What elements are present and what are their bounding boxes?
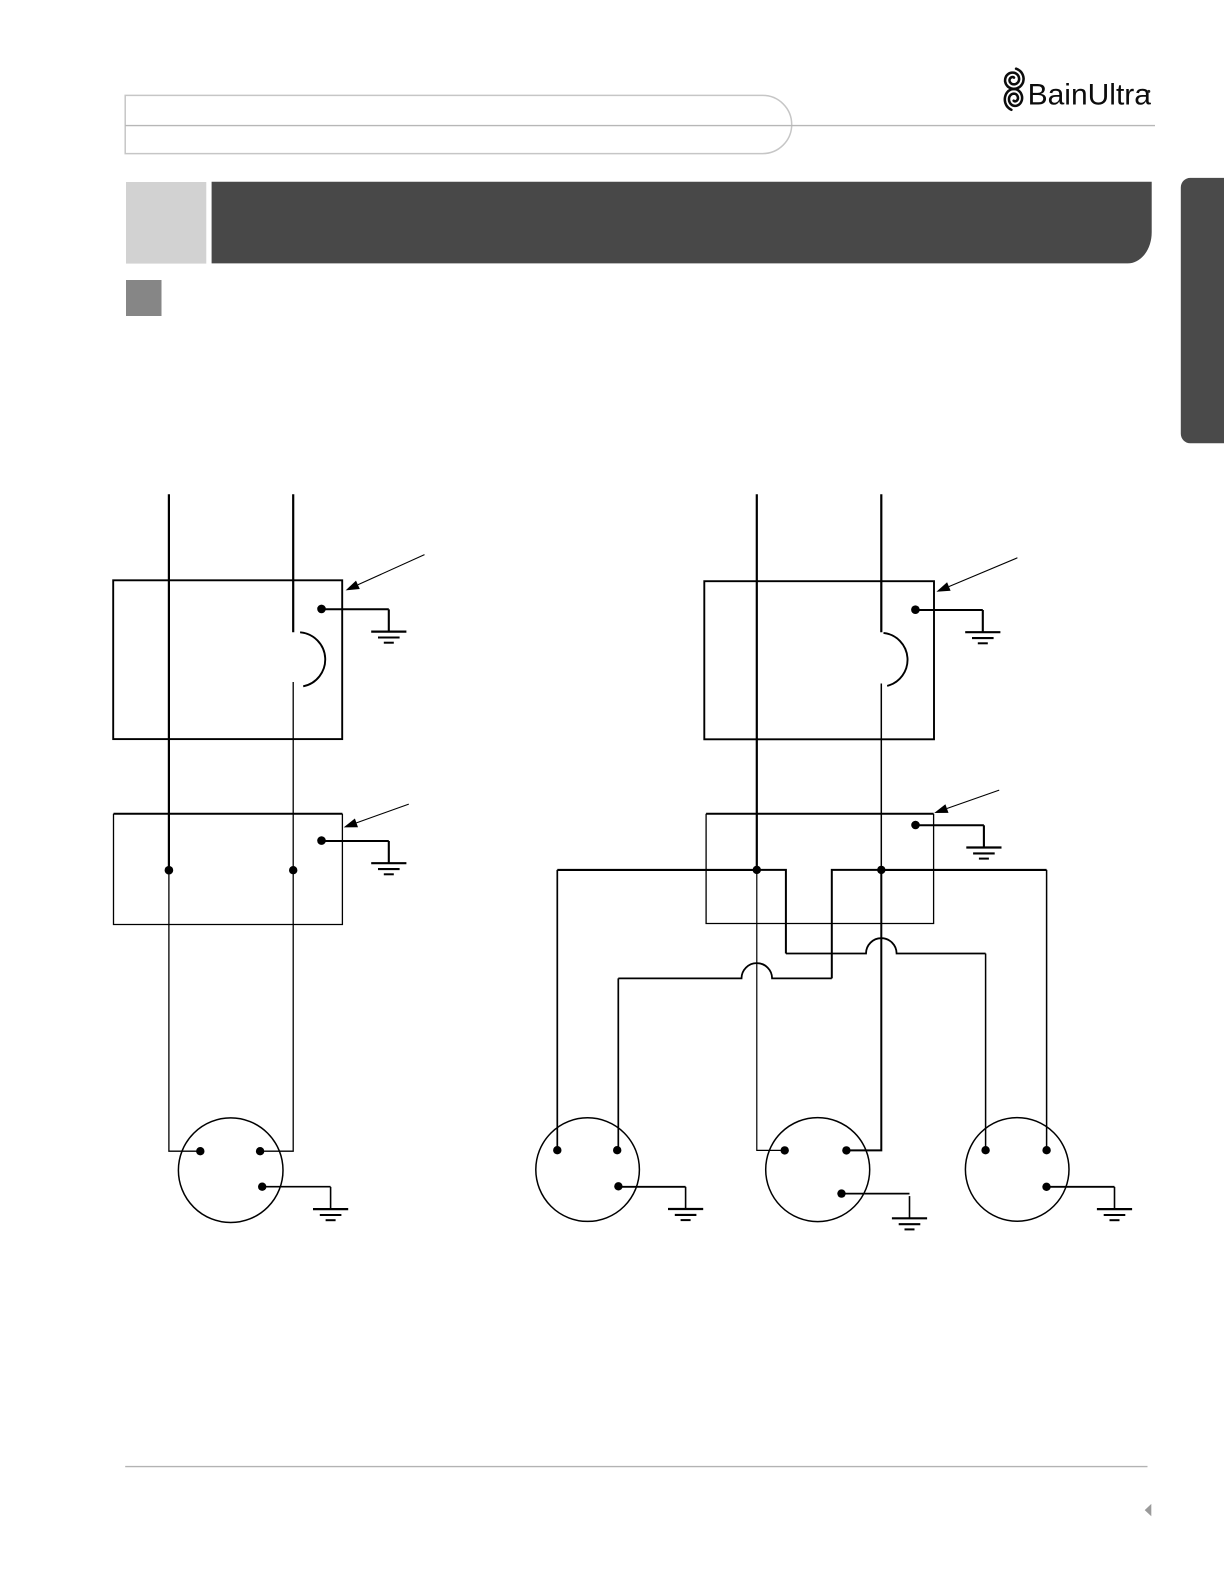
ground symbol M1	[330, 1187, 332, 1209]
wire L2 to M4 right pin drop	[1046, 870, 1048, 1150]
motor connector M4	[965, 1118, 1069, 1222]
ground wire M2	[618, 1186, 685, 1188]
ground symbol M2	[685, 1187, 687, 1209]
ground wire M4	[1047, 1186, 1115, 1188]
wire L1 to M3 left pin	[757, 870, 785, 1151]
junction dot L2 in B4	[877, 866, 885, 874]
ground dot in B1	[317, 605, 326, 614]
wire L1 supply left diagram	[168, 494, 170, 868]
pin dot M2 right	[613, 1146, 621, 1154]
pin dot M4 left	[981, 1146, 989, 1154]
motor connector M1	[178, 1118, 283, 1223]
ground symbol B3	[982, 610, 984, 632]
pin dot M1 right	[256, 1147, 264, 1155]
header pill outline	[125, 95, 792, 153]
ground wire B3	[915, 609, 982, 611]
callout arrow to B3	[949, 558, 1018, 587]
junction dot L2 in B2	[289, 866, 297, 874]
ground wire B4	[916, 824, 984, 826]
ground dot in B2	[317, 836, 326, 845]
callout arrow to B1	[358, 555, 425, 585]
wire L2 supply right diagram	[880, 494, 882, 632]
BainUltra logo swirl icon	[1005, 69, 1024, 110]
wire L2 to M2 jog	[832, 870, 882, 979]
wire L2 to M2 right pin drop	[617, 978, 619, 1150]
pin dot M3 right	[842, 1146, 850, 1154]
ground symbol B2	[388, 841, 390, 863]
wire L1 to M2 left pin horizontal	[557, 869, 757, 871]
breaker contact arc B1	[300, 632, 325, 686]
wire L1 to M2 left pin drop	[556, 870, 558, 1150]
contactor box B4 right diagram	[706, 813, 934, 815]
footer rule line	[125, 1466, 1147, 1468]
wire L2 below breaker right diagram	[880, 684, 882, 869]
svg-text:BainUltra: BainUltra	[1028, 79, 1152, 112]
footer nav arrow	[1145, 1504, 1152, 1516]
header dark title bar	[212, 182, 1152, 264]
header rule line	[125, 125, 1155, 127]
ground wire B2	[322, 840, 389, 842]
pin dot M3 ground	[837, 1189, 845, 1197]
section marker square	[126, 280, 162, 316]
wire L1 to M4 horizontal with hop over L2	[786, 938, 986, 953]
pin dot M3 left	[781, 1146, 789, 1154]
ground symbol B4	[983, 825, 985, 847]
header light gray block	[126, 182, 206, 264]
ground symbol M3	[909, 1196, 911, 1218]
wire L2 to M4 right pin horizontal	[881, 869, 1046, 871]
junction dot L1 in B2	[165, 866, 174, 875]
wire L2 to M2 horizontal with hop over L1	[618, 963, 832, 978]
pin dot M1 ground	[258, 1183, 266, 1191]
ground dot in B3	[911, 605, 920, 614]
callout arrow to B4	[947, 790, 999, 808]
ground wire M1	[262, 1186, 330, 1188]
wire L2 below breaker left diagram	[260, 682, 293, 1151]
ground wire M3	[842, 1193, 910, 1195]
wire L1 supply right diagram	[756, 494, 758, 868]
breaker box B1 left diagram	[113, 580, 342, 739]
right side tab	[1181, 178, 1224, 443]
wire L1 to M4 left pin drop	[985, 954, 987, 1151]
callout arrow to B2	[356, 804, 408, 823]
motor connector M3	[766, 1118, 870, 1222]
wire L2 to M3 right pin	[846, 870, 881, 1151]
ground symbol B1	[388, 609, 390, 631]
pin dot M2 ground	[614, 1182, 622, 1190]
breaker contact arc B3	[884, 633, 908, 686]
breaker box B3 right diagram	[704, 581, 934, 739]
ground dot in B4	[911, 821, 920, 830]
junction dot L1 in B4	[753, 866, 761, 874]
timer box B2 left diagram	[114, 813, 343, 815]
wire L1 drop to M1	[169, 870, 200, 1151]
pin dot M4 right	[1042, 1146, 1050, 1154]
pin dot M1 left	[196, 1147, 204, 1155]
pin dot M4 ground	[1042, 1183, 1050, 1191]
motor connector M2	[536, 1118, 640, 1222]
pin dot M2 left	[553, 1146, 561, 1154]
ground wire B1	[322, 608, 389, 610]
ground symbol M4	[1114, 1187, 1116, 1209]
wire L1 to M4 jog	[757, 870, 786, 954]
wire L2 supply left diagram	[292, 494, 294, 632]
